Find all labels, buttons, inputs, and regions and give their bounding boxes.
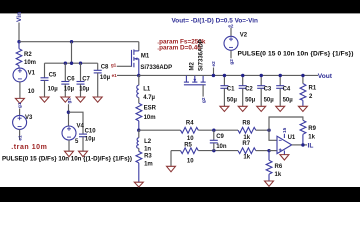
resistor R2 (16, 42, 22, 68)
svg-text:V1: V1 (28, 71, 36, 77)
voltage source V1 (13, 68, 27, 82)
channel segments (133, 49, 135, 55)
resistor R4 (181, 127, 199, 133)
junction V4 top (67, 111, 70, 114)
svg-text:L1: L1 (143, 87, 151, 93)
svg-text:R7: R7 (242, 141, 250, 147)
svg-text:10µ: 10µ (64, 87, 75, 93)
svg-text:C5: C5 (49, 73, 57, 79)
wire V1 to ground (19, 82, 21, 99)
svg-text:Vout= -D/(1-D) D=0.5 Vo=-Vin: Vout= -D/(1-D) D=0.5 Vo=-Vin (172, 18, 259, 25)
svg-text:10m: 10m (24, 60, 36, 66)
channel segments (184, 81, 189, 83)
inductor L1 (137, 75, 139, 103)
capacitor C4 (276, 75, 284, 106)
svg-text:1m: 1m (144, 161, 153, 167)
svg-text:C8: C8 (101, 64, 109, 70)
svg-text:M2: M2 (190, 62, 196, 71)
body arrow (134, 58, 139, 60)
svg-text:R9: R9 (308, 126, 316, 132)
resistor R5 (171, 150, 181, 152)
svg-text:50µ: 50µ (283, 98, 294, 104)
svg-text:.tran 10m: .tran 10m (11, 144, 47, 151)
wire R5 to C9 bottom to R7 (198, 150, 238, 152)
svg-text:C9: C9 (216, 134, 224, 140)
svg-text:Vin: Vin (16, 12, 23, 22)
svg-text:C7: C7 (82, 76, 90, 82)
svg-text:g2: g2 (66, 98, 71, 104)
junction non-inverting node (267, 149, 270, 152)
svg-text:Vout: Vout (318, 73, 333, 80)
junction switch node (137, 74, 140, 77)
ground R5 (167, 166, 176, 172)
resistor R8 (238, 127, 256, 133)
junction C6 top (64, 62, 67, 65)
wire main input horizontal (19, 41, 139, 43)
capacitor C5 (41, 63, 49, 97)
svg-text:PULSE(0 15 0 10n 10n {D/Fs} {1: PULSE(0 15 0 10n 10n {D/Fs} {1/Fs}) (238, 51, 354, 58)
wire feed down to cap bus (71, 42, 73, 64)
resistor R9 (300, 120, 306, 145)
svg-text:50µ: 50µ (227, 98, 238, 104)
capacitor C8 (94, 63, 102, 97)
svg-text:V4: V4 (77, 123, 85, 129)
transistor M1 (132, 42, 139, 76)
gate lead (202, 85, 204, 97)
svg-text:10m: 10m (144, 115, 156, 121)
wire R8 to inverting node (256, 129, 269, 131)
ground C8 (93, 97, 102, 102)
svg-text:g1: g1 (111, 63, 117, 68)
junction inverting node (267, 129, 270, 132)
ground C5 (40, 97, 49, 102)
svg-text:g2: g2 (201, 97, 206, 103)
svg-text:15: 15 (282, 127, 287, 133)
supply stub top (283, 134, 285, 138)
svg-text:R2: R2 (24, 52, 32, 58)
junction input cap feed (70, 40, 73, 43)
ground R3 (134, 182, 143, 187)
wire feedback loop (269, 117, 303, 130)
wire sense node to R4 (139, 129, 181, 131)
capacitor C7 (77, 63, 85, 97)
ground C6 (61, 97, 70, 102)
wire Vin flag to main node (18, 23, 20, 42)
wire switch node to e1 (117, 74, 139, 76)
ground V1 (15, 98, 24, 103)
svg-text:IL: IL (308, 142, 314, 149)
junction C9 bottom (212, 149, 215, 152)
svg-text:.param D=0.40: .param D=0.40 (157, 44, 201, 51)
drain lead (185, 75, 187, 82)
junction C7 top (79, 62, 82, 65)
junction e2 stub (212, 74, 215, 77)
body arrow (194, 75, 196, 82)
wire inverting node to op-amp (269, 130, 277, 140)
source lead (138, 59, 140, 76)
svg-text:10: 10 (187, 158, 194, 164)
resistor R7 (238, 148, 256, 154)
svg-text:C2: C2 (245, 87, 253, 93)
svg-text:1k: 1k (243, 155, 250, 161)
gate bar (184, 84, 206, 86)
wire op-amp output (292, 144, 307, 146)
wire M1 gate (117, 65, 132, 67)
svg-text:PULSE(0 15 {D/Fs} 10n 10n {(1-: PULSE(0 15 {D/Fs} 10n 10n {(1-D)/Fs} {1/… (2, 156, 132, 163)
svg-text:C6: C6 (67, 76, 75, 82)
capacitor C9 (210, 130, 218, 150)
ground V4 (65, 151, 74, 157)
svg-text:U1: U1 (288, 135, 296, 141)
svg-text:R3: R3 (144, 154, 152, 160)
svg-text:M1: M1 (141, 53, 150, 59)
junction output node (301, 143, 304, 146)
svg-text:10µ: 10µ (79, 87, 90, 93)
svg-text:1k: 1k (308, 135, 315, 141)
svg-text:1n: 1n (144, 147, 151, 153)
svg-text:10µ: 10µ (48, 87, 59, 93)
svg-text:V3: V3 (25, 115, 33, 121)
source lead (202, 75, 204, 82)
svg-text:R1: R1 (309, 86, 317, 92)
svg-text:C1: C1 (227, 87, 235, 93)
svg-text:C10: C10 (85, 128, 97, 134)
gate bar (131, 50, 133, 67)
transistor M2 (184, 75, 206, 96)
ground R6 (265, 181, 274, 186)
ground op-amp V- (280, 155, 289, 160)
svg-text:Si7336ADP: Si7336ADP (198, 39, 204, 71)
svg-text:g2: g2 (229, 59, 234, 65)
svg-text:R8: R8 (242, 120, 250, 126)
junction C9 top (212, 129, 215, 132)
capacitor C10 (79, 134, 87, 151)
op-amp U1 (277, 134, 292, 155)
wire R7 to non-inverting node (256, 150, 269, 152)
svg-text:L2: L2 (144, 139, 152, 145)
capacitor C1 (220, 75, 228, 106)
svg-text:R6: R6 (275, 164, 283, 170)
wire non-inverting node to op-amp (269, 150, 277, 152)
resistor R6 (266, 151, 272, 181)
svg-text:4.7µ: 4.7µ (143, 95, 155, 101)
svg-text:Si7336ADP: Si7336ADP (140, 65, 172, 71)
letterbox bottom bar (0, 187, 360, 202)
capacitor C3 (257, 75, 265, 106)
svg-text:R4: R4 (186, 120, 194, 126)
svg-text:ESR: ESR (144, 106, 157, 112)
resistor R1 (300, 75, 306, 106)
svg-text:R5: R5 (184, 142, 192, 148)
svg-text:10: 10 (187, 136, 194, 142)
capacitor C2 (239, 75, 247, 106)
capacitor C6 (61, 63, 69, 97)
svg-text:10: 10 (28, 89, 35, 95)
svg-text:C4: C4 (283, 87, 291, 93)
supply stub bottom (283, 151, 285, 155)
wire R4 to C9 node to R8 (198, 129, 238, 131)
svg-text:50µ: 50µ (264, 98, 275, 104)
inductor L2 (137, 130, 139, 151)
svg-text:e1: e1 (17, 135, 22, 141)
svg-text:50µ: 50µ (245, 98, 256, 104)
svg-text:10µ: 10µ (100, 75, 111, 81)
svg-text:10µ: 10µ (85, 137, 96, 143)
junction feed on bus (70, 62, 73, 65)
svg-text:e1: e1 (112, 73, 118, 78)
ground C10 (79, 151, 88, 157)
node e2 stub flag (213, 68, 215, 76)
resistor ESR (136, 103, 142, 130)
wire input cap bus (45, 62, 98, 64)
svg-text:e2: e2 (228, 24, 234, 29)
drain lead (138, 42, 140, 51)
wire R5 left to ground (170, 151, 172, 167)
svg-text:1k: 1k (275, 172, 282, 178)
resistor R3 (136, 151, 142, 182)
svg-text:10n: 10n (216, 144, 227, 150)
junction ESR bottom / sense node (137, 129, 140, 132)
wire switch node to M2 (139, 74, 195, 76)
letterbox top bar (0, 0, 360, 13)
svg-text:g1: g1 (17, 102, 22, 108)
svg-text:V2: V2 (240, 32, 248, 38)
wire V4 node to C10 (69, 112, 84, 134)
wire M2 source to output bus (195, 74, 318, 76)
junction input node (17, 40, 20, 43)
ground C7 (76, 97, 85, 102)
svg-text:C3: C3 (264, 87, 272, 93)
svg-text:e2: e2 (211, 61, 216, 67)
